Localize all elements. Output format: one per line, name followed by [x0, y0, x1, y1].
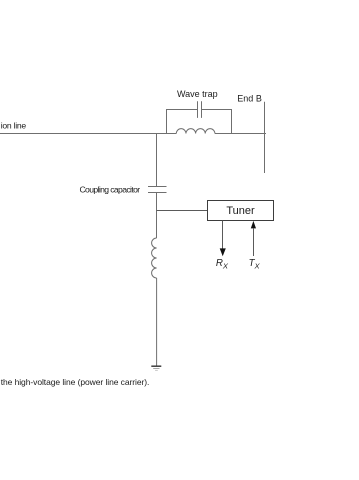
svg-text:RX: RX: [216, 258, 229, 270]
wire wave trap top right segment: [202, 109, 233, 111]
svg-text:Tuner: Tuner: [226, 205, 255, 217]
wire below coupling capacitor: [156, 193, 158, 239]
arrowhead Rx down: [220, 248, 226, 256]
svg-text:the high-voltage line (power l: the high-voltage line (power line carrie…: [1, 377, 150, 387]
wire End B vertical drop: [264, 102, 266, 173]
arrowhead Tx up: [251, 221, 256, 229]
tuner box U1: [208, 201, 274, 221]
inductor L2 drain coil: [152, 238, 157, 278]
wire wave trap right stub: [231, 109, 233, 134]
wire branch to tuner: [157, 210, 208, 212]
capacitor C1 wave trap: [197, 101, 199, 118]
wire transmission line left segment: [0, 133, 176, 135]
ground: [151, 365, 161, 367]
wire transmission line right segment: [215, 133, 266, 135]
wire wave trap left stub: [166, 109, 168, 134]
svg-text:ion line: ion line: [1, 121, 27, 131]
wire to ground: [156, 278, 158, 366]
wire wave trap top left segment: [166, 109, 197, 111]
wire tap vertical to coupling capacitor: [156, 133, 158, 186]
svg-text:Wave trap: Wave trap: [177, 89, 218, 99]
wire Tx line: [253, 228, 255, 256]
svg-text:TX: TX: [249, 258, 261, 270]
capacitor C2 coupling capacitor: [148, 186, 167, 188]
inductor L1 wave trap coil: [176, 129, 215, 134]
svg-text:End B: End B: [237, 94, 262, 104]
svg-text:Coupling capacitor: Coupling capacitor: [79, 185, 140, 195]
wire Rx line: [222, 221, 224, 250]
